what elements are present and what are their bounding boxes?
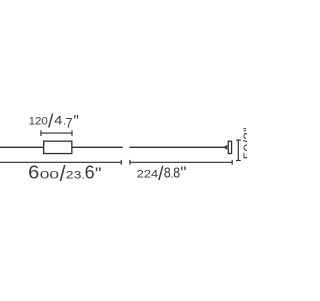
bottom serif: [236, 160, 241, 162]
svg-text:6: 6: [28, 162, 39, 183]
svg-text:": ": [95, 164, 101, 183]
svg-text:7: 7: [66, 114, 73, 130]
head rectangle (side view): [228, 141, 231, 153]
svg-text:8: 8: [173, 165, 180, 182]
tick left of 120 dim: [40, 130, 42, 136]
svg-text:23: 23: [66, 170, 82, 182]
svg-text:": ": [241, 127, 247, 131]
dimension line 600: [0, 161, 121, 163]
svg-text:4: 4: [54, 114, 62, 128]
svg-text:/: /: [48, 110, 54, 132]
svg-text:": ": [180, 163, 186, 182]
svg-text:6: 6: [85, 162, 95, 183]
driver box on bar: [44, 141, 72, 153]
top serif: [236, 139, 241, 141]
wire: front-view lamp bar (left segment): [0, 146, 123, 148]
tick right of 120 dim: [71, 130, 73, 136]
svg-text:224: 224: [137, 169, 158, 181]
svg-text:00: 00: [40, 170, 59, 182]
dimension line 224: [130, 161, 233, 163]
svg-text:50/2: 50/2: [241, 132, 247, 159]
rotated label (clipped at right edge): [241, 127, 255, 159]
tick right of 600 dim: [120, 160, 122, 165]
svg-text:": ": [74, 111, 79, 130]
dimension line 120: [41, 132, 72, 134]
tick right of 224 dim: [231, 160, 233, 165]
svg-text:120: 120: [29, 116, 48, 128]
arm end wedge: [224, 145, 227, 150]
label 600/23.6": [28, 161, 101, 186]
label 120/4.7": [29, 110, 79, 132]
vertical dimension bracket (head height): [237, 140, 239, 160]
tick left of 224 dim: [129, 160, 131, 165]
wire: side-view arm (right segment): [129, 146, 224, 148]
label 224/8.8": [137, 163, 187, 185]
